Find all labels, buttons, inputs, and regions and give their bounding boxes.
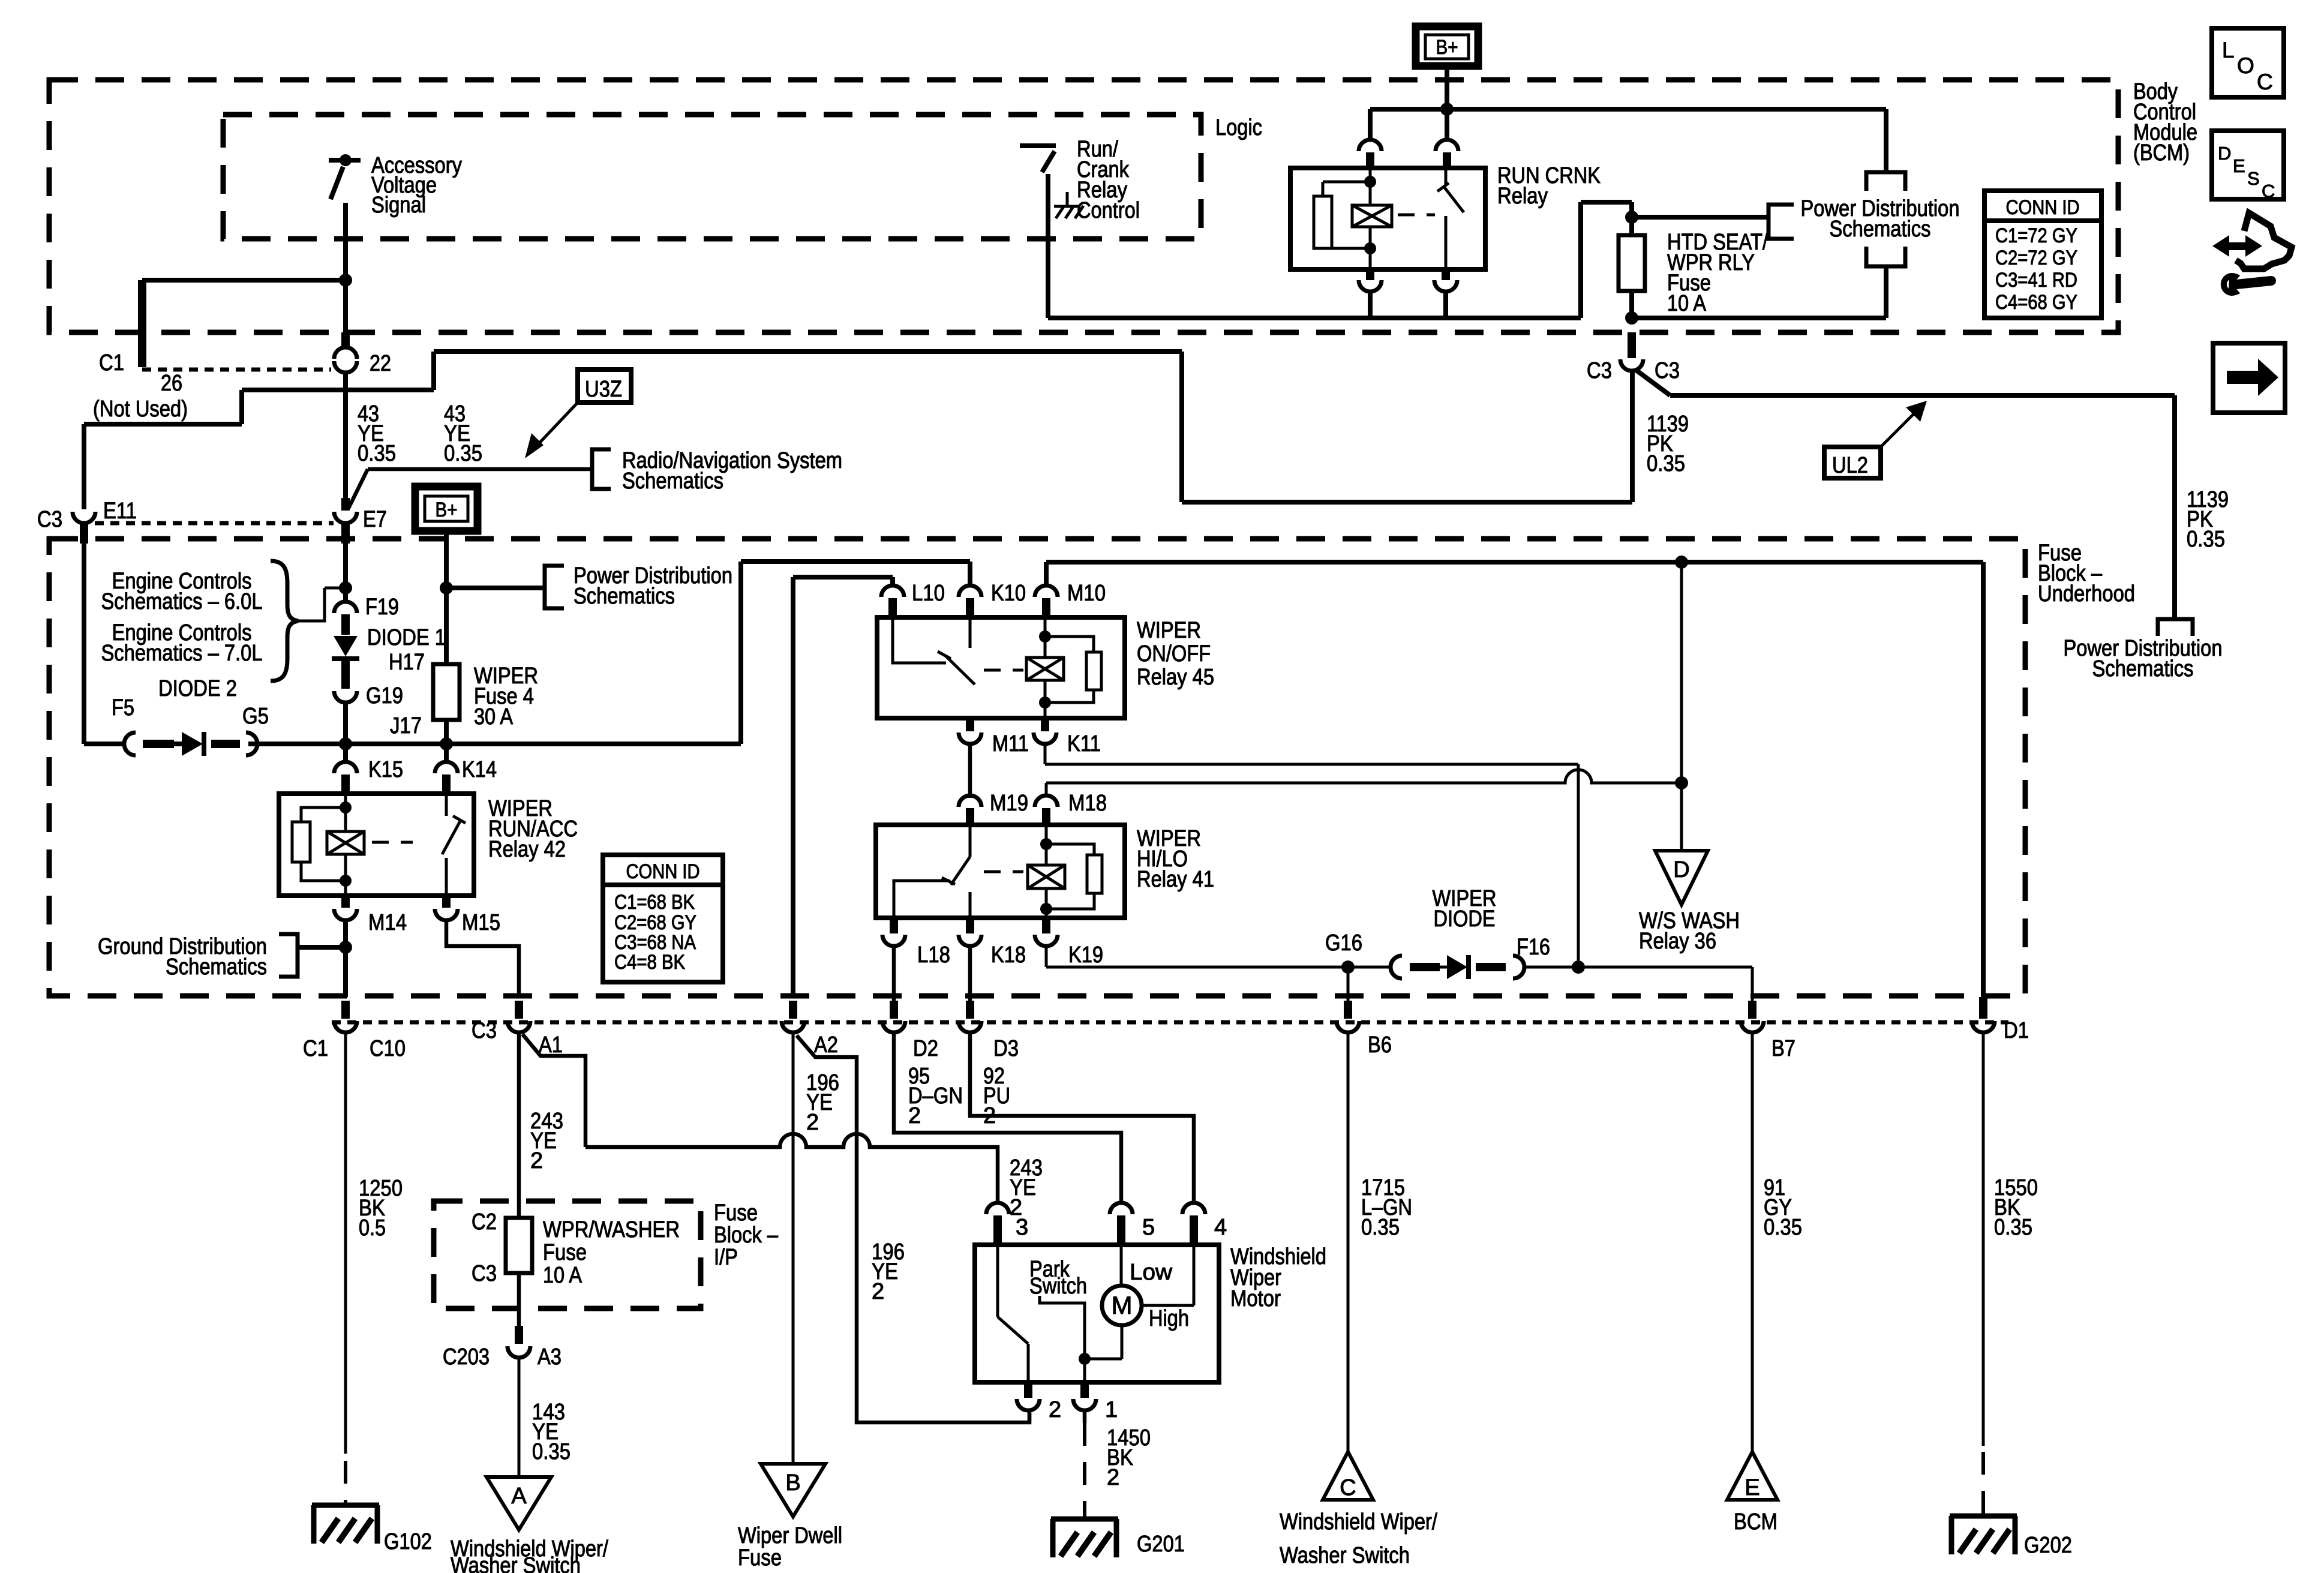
svg-text:F19: F19: [365, 595, 399, 620]
svg-text:B7: B7: [1771, 1036, 1795, 1061]
svg-text:B: B: [785, 1470, 800, 1496]
svg-text:Relay 41: Relay 41: [1137, 867, 1214, 892]
svg-text:C: C: [2262, 181, 2275, 202]
svg-text:G5: G5: [242, 704, 269, 729]
svg-text:Control: Control: [1077, 198, 1140, 223]
svg-text:0.35: 0.35: [358, 441, 396, 466]
svg-text:B+: B+: [436, 499, 458, 521]
svg-text:C3: C3: [1655, 358, 1680, 383]
svg-text:C203: C203: [443, 1344, 490, 1370]
svg-text:Schematics: Schematics: [2092, 656, 2194, 682]
svg-text:L18: L18: [917, 942, 950, 968]
svg-text:G201: G201: [1137, 1532, 1185, 1557]
svg-text:C3: C3: [1587, 358, 1612, 383]
svg-text:K14: K14: [462, 757, 497, 782]
svg-text:S: S: [2247, 168, 2260, 189]
svg-text:K15: K15: [368, 757, 403, 782]
svg-text:C3: C3: [472, 1018, 497, 1043]
svg-text:C1=72 GY: C1=72 GY: [1995, 224, 2077, 247]
svg-text:0.35: 0.35: [444, 441, 482, 466]
svg-text:Washer Switch: Washer Switch: [1280, 1543, 1410, 1568]
svg-text:A: A: [511, 1484, 527, 1509]
svg-text:K11: K11: [1067, 731, 1101, 757]
svg-text:U3Z: U3Z: [585, 377, 622, 402]
svg-text:C3: C3: [472, 1261, 497, 1286]
svg-text:M19: M19: [990, 791, 1028, 816]
svg-text:(Not Used): (Not Used): [93, 397, 188, 422]
svg-text:Relay: Relay: [1497, 184, 1548, 209]
svg-text:C2: C2: [472, 1209, 497, 1235]
svg-text:CONN ID: CONN ID: [626, 860, 700, 883]
svg-text:26: 26: [161, 371, 182, 396]
svg-text:D: D: [1673, 857, 1689, 882]
svg-text:1: 1: [1105, 1397, 1118, 1422]
svg-text:Block –: Block –: [714, 1223, 779, 1248]
svg-text:Relay 36: Relay 36: [1639, 929, 1716, 954]
svg-text:C1: C1: [99, 350, 124, 376]
svg-text:C: C: [1340, 1475, 1356, 1500]
svg-text:Switch: Switch: [1029, 1274, 1087, 1299]
svg-text:E7: E7: [363, 507, 387, 532]
svg-text:C: C: [2257, 70, 2273, 94]
svg-text:L10: L10: [912, 581, 945, 606]
svg-text:(BCM): (BCM): [2133, 140, 2190, 166]
svg-text:I/P: I/P: [714, 1245, 738, 1270]
svg-text:Relay 42: Relay 42: [488, 837, 566, 862]
svg-text:K19: K19: [1068, 942, 1103, 968]
svg-text:B+: B+: [1436, 36, 1458, 59]
svg-text:DIODE 1: DIODE 1: [367, 625, 446, 650]
svg-text:O: O: [2237, 53, 2254, 78]
svg-text:ON/OFF: ON/OFF: [1137, 641, 1211, 667]
svg-text:0.35: 0.35: [1764, 1215, 1802, 1240]
svg-text:G102: G102: [384, 1529, 432, 1554]
svg-text:A3: A3: [538, 1344, 562, 1370]
svg-text:Schematics: Schematics: [622, 469, 723, 494]
svg-text:D2: D2: [913, 1036, 938, 1061]
svg-text:D3: D3: [993, 1036, 1019, 1061]
svg-text:C4=8 BK: C4=8 BK: [614, 951, 685, 974]
svg-text:C4=68 GY: C4=68 GY: [1995, 291, 2077, 314]
svg-text:WPR/WASHER: WPR/WASHER: [543, 1217, 680, 1242]
svg-text:Low: Low: [1130, 1260, 1173, 1285]
svg-text:2: 2: [530, 1148, 543, 1173]
svg-text:Signal: Signal: [371, 193, 426, 218]
svg-text:Fuse: Fuse: [714, 1200, 758, 1226]
svg-text:A1: A1: [539, 1032, 563, 1058]
svg-text:M14: M14: [368, 910, 407, 935]
svg-text:Washer Switch: Washer Switch: [451, 1553, 581, 1573]
svg-text:A2: A2: [814, 1032, 838, 1058]
svg-text:G19: G19: [366, 683, 403, 709]
svg-text:High: High: [1149, 1306, 1189, 1331]
svg-text:H17: H17: [389, 650, 425, 675]
svg-text:2: 2: [1107, 1465, 1119, 1490]
svg-text:10 A: 10 A: [543, 1263, 582, 1288]
svg-text:2: 2: [806, 1110, 819, 1135]
svg-text:30 A: 30 A: [474, 704, 514, 730]
svg-text:B6: B6: [1368, 1032, 1392, 1058]
svg-text:E: E: [1744, 1475, 1759, 1500]
svg-text:2: 2: [872, 1279, 884, 1304]
svg-text:E11: E11: [103, 499, 137, 524]
svg-text:L: L: [2222, 38, 2235, 62]
svg-text:Schematics – 6.0L: Schematics – 6.0L: [101, 589, 263, 614]
svg-text:Schematics: Schematics: [1830, 217, 1931, 242]
svg-text:0.5: 0.5: [359, 1215, 386, 1241]
svg-text:Fuse: Fuse: [543, 1240, 587, 1265]
svg-text:5: 5: [1142, 1215, 1155, 1240]
svg-text:Motor: Motor: [1230, 1286, 1281, 1311]
svg-text:3: 3: [1016, 1215, 1028, 1240]
svg-text:C10: C10: [370, 1036, 406, 1061]
svg-text:E: E: [2233, 155, 2245, 176]
svg-text:G16: G16: [1325, 930, 1362, 956]
svg-text:0.35: 0.35: [532, 1439, 571, 1464]
svg-text:10 A: 10 A: [1667, 291, 1707, 316]
svg-text:WIPER: WIPER: [1137, 618, 1201, 643]
svg-text:D: D: [2218, 143, 2231, 164]
svg-text:CONN ID: CONN ID: [2006, 196, 2080, 219]
svg-text:2: 2: [908, 1103, 921, 1128]
svg-text:0.35: 0.35: [1994, 1215, 2032, 1240]
svg-text:M10: M10: [1067, 581, 1106, 606]
svg-text:Windshield Wiper/: Windshield Wiper/: [1280, 1509, 1437, 1535]
svg-text:C1=68 BK: C1=68 BK: [614, 891, 695, 914]
svg-text:G202: G202: [2024, 1533, 2072, 1558]
svg-text:F16: F16: [1517, 935, 1550, 960]
svg-text:Relay 45: Relay 45: [1137, 665, 1214, 690]
svg-text:C2=72 GY: C2=72 GY: [1995, 247, 2077, 269]
svg-text:F5: F5: [112, 695, 134, 721]
svg-text:K10: K10: [991, 581, 1026, 606]
svg-text:22: 22: [370, 351, 391, 376]
svg-text:M15: M15: [462, 910, 500, 935]
svg-text:M18: M18: [1068, 791, 1107, 816]
svg-text:Wiper Dwell: Wiper Dwell: [738, 1523, 842, 1548]
svg-text:Schematics: Schematics: [166, 954, 267, 980]
svg-text:Logic: Logic: [1215, 115, 1262, 140]
svg-text:DIODE 2: DIODE 2: [158, 676, 237, 701]
svg-text:4: 4: [1214, 1215, 1227, 1240]
svg-text:C3=41 RD: C3=41 RD: [1995, 269, 2077, 292]
svg-text:K18: K18: [991, 942, 1026, 968]
svg-text:C1: C1: [303, 1036, 328, 1061]
svg-text:0.35: 0.35: [1361, 1215, 1400, 1240]
svg-text:Schematics – 7.0L: Schematics – 7.0L: [101, 641, 263, 666]
svg-text:Fuse: Fuse: [738, 1545, 782, 1571]
svg-text:J17: J17: [390, 713, 422, 739]
svg-text:0.35: 0.35: [2187, 527, 2225, 552]
svg-text:M11: M11: [992, 731, 1029, 757]
svg-text:0.35: 0.35: [1647, 451, 1685, 476]
svg-text:Underhood: Underhood: [2038, 581, 2135, 607]
svg-text:2: 2: [1049, 1397, 1061, 1422]
svg-text:C3: C3: [37, 507, 62, 532]
svg-text:Schematics: Schematics: [574, 584, 675, 609]
svg-text:BCM: BCM: [1734, 1509, 1777, 1535]
svg-text:M: M: [1112, 1291, 1133, 1319]
svg-text:UL2: UL2: [1832, 453, 1868, 478]
svg-text:D1: D1: [2004, 1018, 2029, 1043]
svg-text:DIODE: DIODE: [1434, 906, 1496, 932]
